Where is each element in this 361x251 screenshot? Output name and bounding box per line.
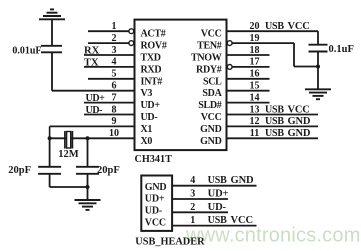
svg-text:UD-: UD- [86,105,103,116]
svg-text:GND: GND [288,128,311,139]
svg-text:GND: GND [200,124,221,135]
svg-text:20pF: 20pF [8,165,31,176]
svg-text:0.01uF: 0.01uF [12,46,41,57]
svg-text:VCC: VCC [201,112,222,123]
svg-text:ACT#: ACT# [141,29,166,40]
svg-text:RXD: RXD [141,64,162,75]
svg-text:VCC: VCC [201,29,222,40]
svg-text:VCC: VCC [145,218,166,229]
svg-text:USB: USB [265,21,284,32]
svg-text:5: 5 [112,69,117,80]
svg-text:GND: GND [200,136,221,147]
svg-text:8: 8 [112,104,117,115]
svg-text:12M: 12M [58,149,79,160]
svg-text:ROV#: ROV# [141,41,167,52]
svg-text:SLD#: SLD# [198,100,222,111]
svg-text:VCC: VCC [231,215,253,226]
svg-text:17: 17 [250,57,260,68]
svg-text:TX: TX [84,57,99,68]
svg-text:RDY#: RDY# [196,64,222,75]
svg-text:X0: X0 [141,136,153,147]
svg-text:VCC: VCC [288,21,310,32]
svg-text:18: 18 [250,45,260,56]
svg-text:VCC: VCC [288,104,310,115]
svg-text:3: 3 [112,45,117,56]
svg-text:9: 9 [112,116,117,127]
svg-text:12: 12 [250,116,260,127]
svg-text:www.cntronics.com: www.cntronics.com [185,225,361,247]
svg-text:GND: GND [145,182,167,193]
svg-text:UD+: UD+ [86,93,106,104]
svg-text:SDA: SDA [202,88,222,99]
svg-text:14: 14 [250,92,260,103]
svg-text:0.1uF: 0.1uF [329,44,354,55]
svg-text:13: 13 [250,104,260,115]
svg-text:USB_HEADER: USB_HEADER [135,237,205,248]
svg-text:UD+: UD+ [145,194,165,205]
svg-text:INT#: INT# [141,76,163,87]
svg-text:GND: GND [288,116,311,127]
svg-text:1: 1 [112,21,117,32]
svg-text:TNOW: TNOW [191,53,222,64]
svg-text:V3: V3 [141,88,153,99]
svg-text:GND: GND [231,175,255,186]
svg-text:19: 19 [250,33,260,44]
svg-text:UD-: UD- [208,202,227,213]
svg-text:4: 4 [190,175,195,186]
svg-text:4: 4 [112,57,117,68]
svg-text:2: 2 [190,202,195,213]
svg-text:SCL: SCL [203,76,222,87]
svg-text:CH341T: CH341T [135,154,173,165]
svg-text:16: 16 [250,69,260,80]
svg-text:UD-: UD- [141,112,158,123]
svg-text:1: 1 [190,215,195,226]
svg-text:7: 7 [112,92,117,103]
svg-text:UD+: UD+ [141,100,161,111]
svg-text:10: 10 [109,128,119,139]
svg-text:USB: USB [208,215,228,226]
svg-text:20pF: 20pF [97,165,120,176]
svg-text:15: 15 [250,81,260,92]
svg-text:RX: RX [84,46,100,57]
svg-text:6: 6 [112,81,117,92]
svg-text:X1: X1 [141,124,153,135]
svg-text:2: 2 [112,33,117,44]
svg-text:TEN#: TEN# [197,41,222,52]
svg-text:11: 11 [250,128,259,139]
svg-text:USB: USB [265,116,284,127]
svg-text:UD-: UD- [145,206,162,217]
svg-text:USB: USB [208,175,228,186]
svg-text:USB: USB [265,128,284,139]
svg-text:TXD: TXD [141,53,161,64]
svg-text:20: 20 [250,21,260,32]
svg-text:UD+: UD+ [208,189,229,200]
svg-text:3: 3 [190,189,195,200]
svg-text:USB: USB [265,104,284,115]
